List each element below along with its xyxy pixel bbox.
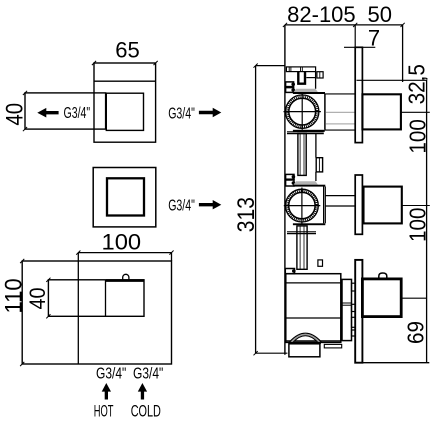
svg-text:110: 110 (0, 278, 27, 313)
svg-text:65: 65 (115, 38, 139, 63)
svg-text:G3/4": G3/4" (168, 104, 195, 122)
svg-text:HOT: HOT (94, 402, 114, 421)
svg-text:32,5: 32,5 (403, 64, 430, 104)
svg-text:40: 40 (1, 103, 28, 126)
svg-text:100: 100 (404, 119, 431, 153)
svg-text:69: 69 (402, 321, 429, 344)
svg-text:G3/4": G3/4" (64, 104, 91, 122)
svg-text:50: 50 (368, 2, 392, 27)
svg-text:100: 100 (404, 207, 431, 241)
svg-text:82-105: 82-105 (287, 2, 356, 27)
svg-text:G3/4": G3/4" (133, 364, 163, 382)
svg-text:7: 7 (368, 25, 380, 50)
svg-text:G3/4": G3/4" (96, 364, 126, 382)
svg-text:G3/4": G3/4" (168, 196, 195, 214)
svg-text:COLD: COLD (131, 402, 161, 421)
svg-text:40: 40 (26, 287, 50, 309)
svg-text:313: 313 (233, 197, 260, 232)
svg-text:100: 100 (101, 229, 141, 254)
